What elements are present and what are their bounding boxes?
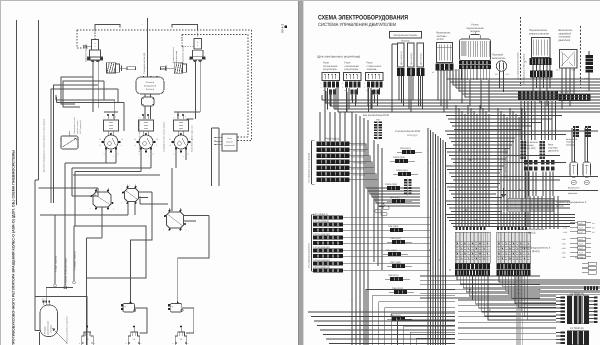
mid horizontal wire 3 <box>75 171 141 173</box>
svg-text:А7С2А (В4)(4)(3): А7С2А (В4)(4)(3) <box>313 233 330 236</box>
svg-text:ДВ12 (М4)(3): ДВ12 (М4)(3) <box>410 53 413 65</box>
svg-text:3: 3 <box>188 153 189 156</box>
svg-text:22: 22 <box>121 138 123 141</box>
svg-text:К передн. тормоза: К передн. тормоза <box>74 251 77 270</box>
svg-text:Модуль: Модуль <box>401 40 410 43</box>
relay valve V2 <box>125 189 139 202</box>
relay connector blocks R3 <box>367 82 370 88</box>
long route rectangle <box>74 226 146 345</box>
left chamber pilot valve <box>92 40 99 51</box>
dashed drop to left valve <box>94 30 96 40</box>
emergency stop box <box>560 50 578 69</box>
svg-text:б: б <box>185 116 186 119</box>
svg-text:3: 3 <box>118 153 119 156</box>
svg-text:К клапану управления (для ЕС): К клапану управления (для ЕС) <box>66 316 69 344</box>
svg-text:(В1(1)): (В1(1)) <box>528 232 536 235</box>
svg-text:А7С3 (В4)(3,1): А7С3 (В4)(3,1) <box>313 213 328 216</box>
big connector X1 pin row <box>455 270 490 276</box>
protection valve circle rear <box>174 135 188 149</box>
big connector X1 dense row <box>455 264 490 270</box>
svg-text:регулятора: регулятора <box>323 68 337 71</box>
svg-text:3: 3 <box>121 202 122 205</box>
svg-text:1: 1 <box>174 153 175 156</box>
group1 fan wires <box>360 144 420 188</box>
short right verticals <box>211 128 213 186</box>
central bundle junctions <box>427 149 429 151</box>
bus corner turns from comb <box>446 69 448 79</box>
svg-text:2 4 1 3: 2 4 1 3 <box>453 69 459 72</box>
right coil symbol <box>174 63 182 74</box>
svg-text:12: 12 <box>134 144 136 147</box>
svg-text:2: 2 <box>183 155 184 158</box>
window top border <box>0 0 600 2</box>
svg-text:(В1(2)): (В1(2)) <box>532 250 540 253</box>
svg-text:ЕС2: ЕС2 <box>572 69 576 72</box>
ASSO switch body <box>437 43 453 63</box>
scattered junction dots mid page <box>459 149 460 150</box>
pressure switch B <box>583 162 591 177</box>
gear lever knob <box>470 35 481 40</box>
relay box R3 <box>366 73 384 81</box>
pressure switch feeds <box>571 128 573 162</box>
valve V2 tails <box>139 191 153 193</box>
main harness connector band B <box>559 95 591 102</box>
svg-text:а: а <box>174 117 175 119</box>
svg-text:А-УП: А-УП <box>579 231 584 234</box>
group2 fan wires <box>352 217 430 219</box>
svg-text:1: 1 <box>104 153 105 156</box>
svg-text:PW03 (В4В)(1): PW03 (В4В)(1) <box>351 168 365 171</box>
svg-text:Жгут проводов (левая сторона): Жгут проводов (левая сторона) <box>523 53 526 84</box>
svg-text:(управляющего: (управляющего <box>47 320 50 335</box>
relay to connector verticals <box>521 196 523 229</box>
relay connector blocks R2 <box>345 82 348 88</box>
svg-text:1: 1 <box>90 191 91 194</box>
rear relay pin strips <box>521 141 523 143</box>
solenoid valve A <box>123 304 135 313</box>
svg-text:3: 3 <box>90 207 91 210</box>
svg-text:12: 12 <box>99 144 101 147</box>
svg-text:2: 2 <box>113 155 114 158</box>
main harness connector band A <box>518 91 558 100</box>
capsule feed wire <box>46 288 73 301</box>
svg-text:Жгут проводов шасси (задний): Жгут проводов шасси (задний) <box>504 148 507 178</box>
protection valve rect rear <box>174 120 189 131</box>
left page background <box>1 1 299 345</box>
svg-text:ТМВ (3)(1): ТМВ (3)(1) <box>388 274 399 277</box>
dashed control line left drop <box>76 30 78 48</box>
left column bottom horizontals <box>308 311 455 313</box>
svg-text:клапан отсечки: клапан отсечки <box>76 121 79 134</box>
mid-right horizontal tap wires <box>446 115 562 117</box>
reversing switch body <box>532 38 551 58</box>
bottom right horizontal bundle <box>458 299 556 301</box>
capsule right frame <box>52 297 88 345</box>
route from V3 <box>178 216 209 303</box>
long wire left pair <box>16 20 18 205</box>
svg-text:Реле: Реле <box>548 144 554 147</box>
svg-text:PW03 (В4)(2): PW03 (В4)(2) <box>353 174 366 177</box>
relay connector row2 R3 <box>373 90 376 95</box>
upper horizontal bus bundle left <box>322 99 600 101</box>
relay connector row2 R1 <box>329 90 332 95</box>
mid horizontal wire 2 <box>72 167 151 169</box>
svg-text:1: 1 <box>342 82 343 85</box>
svg-text:двигателя: двигателя <box>548 150 559 153</box>
svg-text:ТМВ (3)(4): ТМВ (3)(4) <box>390 237 401 240</box>
C3 TEMP A block <box>567 296 589 325</box>
svg-text:А-УП: А-УП <box>579 242 584 245</box>
circle drop wires <box>105 149 107 164</box>
svg-text:С3 ТЕМР (В): С3 ТЕМР (В) <box>570 327 584 330</box>
svg-text:2: 2 <box>148 155 149 158</box>
big connector X1 fan down <box>457 276 600 281</box>
svg-text:ДВ11 (М4)(3,2): ДВ11 (М4)(3,2) <box>400 51 403 65</box>
svg-text:Ресивер: Ресивер <box>44 325 47 334</box>
svg-text:Тормозная камера: Тормозная камера <box>182 45 185 63</box>
svg-text:2: 2 <box>364 86 365 89</box>
page gap shadow <box>299 0 304 345</box>
svg-text:4: 4 <box>129 184 130 187</box>
wire loop symbols <box>378 203 384 207</box>
air tank control capsule <box>40 305 58 337</box>
svg-text:вых: вых <box>42 299 45 301</box>
mid horizontal wire 4 <box>73 174 160 176</box>
svg-text:1: 1 <box>121 188 122 191</box>
svg-text:прицепа: прицепа <box>566 143 575 146</box>
ASSO drop wires <box>437 71 439 101</box>
svg-text:21: 21 <box>99 138 101 141</box>
svg-text:PW3 (3)(1): PW3 (3)(1) <box>400 147 411 150</box>
svg-text:ЕС1: ЕС1 <box>556 69 560 72</box>
mid horizontal wire 1 <box>65 162 116 164</box>
svg-text:2: 2 <box>342 86 343 89</box>
svg-text:контура): контура) <box>50 325 53 333</box>
big connector X2 top tick rows <box>497 227 499 230</box>
relay box R2 <box>344 73 362 81</box>
mid-right tap junction dots <box>452 130 453 131</box>
svg-text:Стандартный тип (Е): Стандартный тип (Е) <box>143 53 146 74</box>
svg-text:А-УП: А-УП <box>579 226 584 229</box>
central vertical bundle <box>427 128 429 345</box>
manifold cross wires <box>104 111 118 113</box>
wire label K peredn tormoza <box>73 226 75 281</box>
svg-text:А-УП: А-УП <box>579 222 584 225</box>
svg-text:пв: пв <box>171 306 173 308</box>
wire label K kamere <box>64 188 66 286</box>
svg-text:2: 2 <box>113 208 114 211</box>
C3 TEMP B block <box>567 331 589 345</box>
svg-text:С контроллером РСМ: С контроллером РСМ <box>395 130 420 133</box>
valve cluster links <box>65 187 98 189</box>
wire label K zadn tormoza <box>54 215 56 284</box>
grey note box <box>508 199 554 212</box>
big connector X2 fan down <box>499 276 600 283</box>
relay valve V3 <box>167 212 184 228</box>
pressure switch A <box>570 162 578 177</box>
left coil symbol <box>107 63 116 73</box>
big connector X1 top tick rows <box>456 227 458 230</box>
right brake chamber body <box>193 50 204 56</box>
left brake chamber body <box>90 50 101 57</box>
harness dashed separator right <box>580 26 582 88</box>
relay connector blocks R1 <box>324 82 327 88</box>
grey fan strip <box>516 276 518 345</box>
control panel title box <box>390 32 422 39</box>
right chamber base <box>190 57 205 60</box>
svg-text:21: 21 <box>169 138 171 141</box>
relay box R1 <box>322 73 340 81</box>
svg-text:12: 12 <box>169 144 171 147</box>
big connector X2 pin row <box>497 270 531 276</box>
svg-text:3: 3 <box>163 228 164 231</box>
reversing switch connector <box>530 58 552 65</box>
svg-text:Электромагнитный: Электромагнитный <box>73 117 76 134</box>
svg-text:Крепление оборудования пневмат: Крепление оборудования пневматической си… <box>43 118 46 172</box>
svg-text:С3 ТЕМР (А): С3 ТЕМР (А) <box>570 292 584 295</box>
tank feed top wire <box>147 18 149 77</box>
svg-text:(В1(1)): (В1(1)) <box>556 205 564 208</box>
group2 bracket <box>311 215 313 272</box>
svg-text:3: 3 <box>153 153 154 156</box>
svg-text:ТМС (3)(7): ТМС (3)(7) <box>386 249 397 252</box>
mid wire to valve3 <box>171 168 173 211</box>
air receiver tank <box>136 77 164 94</box>
left nested feed wires <box>61 77 93 104</box>
C3 TEMP A left terminals <box>561 297 566 299</box>
svg-text:PW03 (3)(4): PW03 (3)(4) <box>393 156 405 159</box>
relay group drop wires <box>525 172 527 197</box>
dashed corner into right valve <box>181 35 183 47</box>
svg-text:90-4-3: 90-4-3 <box>281 24 285 33</box>
right fuse stack 1 <box>578 221 586 225</box>
relay pin wires R1 <box>324 88 326 112</box>
svg-text:давления: давления <box>568 192 577 195</box>
rear relay blocks <box>524 160 527 165</box>
svg-text:А7С10 (В4)(1)(2): А7С10 (В4)(1)(2) <box>313 266 330 269</box>
solenoid pilot valve <box>61 136 78 149</box>
svg-text:PW03 (3)(0): PW03 (3)(0) <box>385 183 397 186</box>
group1 connector rows <box>317 142 350 147</box>
svg-text:реверса-питания: реверса-питания <box>529 32 549 35</box>
right page background <box>303 1 600 345</box>
svg-text:А7С4А (В4)(4)(1): А7С4А (В4)(4)(1) <box>313 246 330 249</box>
protection valve circle front <box>104 135 118 149</box>
dashed control line top run <box>77 29 252 31</box>
svg-text:Жгут проводов включателей: Жгут проводов включателей <box>517 52 520 80</box>
capsule bottom stub <box>39 332 41 345</box>
svg-text:ТМС (3)(0): ТМС (3)(0) <box>390 261 401 264</box>
top bracket left <box>95 25 120 31</box>
route from V2 tail <box>131 192 153 302</box>
svg-text:А1: А1 <box>432 71 434 74</box>
control panel connector row 1 <box>397 68 405 76</box>
svg-text:А7С4А (В4А)(3): А7С4А (В4А)(3) <box>313 220 329 223</box>
dashed control line second run <box>182 34 248 36</box>
svg-text:PW3 (3)(1): PW3 (3)(1) <box>407 134 418 137</box>
svg-text:(давление): (давление) <box>224 144 235 147</box>
svg-text:расцепления: расцепления <box>175 51 178 63</box>
valve V3 tails <box>184 215 210 217</box>
svg-text:двигателя: двигателя <box>559 39 571 42</box>
right chamber pilot valve <box>194 39 202 50</box>
svg-text:21: 21 <box>134 138 136 141</box>
svg-text:Включатель: Включатель <box>568 187 580 190</box>
solenoid valve A drop <box>135 308 148 333</box>
svg-text:а: а <box>104 117 105 119</box>
C3 TEMP B left terminals <box>561 332 566 334</box>
right fuse stack 2 <box>578 237 586 241</box>
valve V1 drop <box>101 207 103 238</box>
far right pin strip <box>586 55 594 58</box>
svg-text:2: 2 <box>321 86 322 89</box>
solenoid valve B <box>170 304 182 313</box>
svg-text:К задн. тормоза: К задн. тормоза <box>55 255 58 272</box>
svg-text:б: б <box>150 116 151 119</box>
band to relay verticals <box>520 101 522 140</box>
svg-text:1: 1 <box>364 82 365 85</box>
svg-text:Реле включе-: Реле включе- <box>524 141 539 144</box>
secondary vertical bundle B <box>497 108 499 227</box>
top right pin strips <box>573 126 576 128</box>
C3 TEMP top mini strip <box>584 287 586 291</box>
svg-text:передач: передач <box>470 30 481 33</box>
control panel strip 2 <box>408 43 415 67</box>
control panel drop wires <box>398 76 400 100</box>
svg-text:А7С5А (В4)(5)(2): А7С5А (В4)(5)(2) <box>313 259 330 262</box>
svg-text:Тормозная камера задн. оси: Тормозная камера задн. оси <box>191 126 194 152</box>
svg-text:ПРОТИВОБУКСОВОЧНОГО РЕГУЛЯТОРА: ПРОТИВОБУКСОВОЧНОГО РЕГУЛЯТОРА ВРАЩЕНИЯ … <box>12 150 16 345</box>
protection valve rect middle <box>139 120 154 131</box>
nested routing loops <box>366 290 455 345</box>
relay valve V1 <box>93 192 111 207</box>
right chamber legs <box>195 60 197 119</box>
left column mid verticals <box>373 140 375 262</box>
svg-text:ДВ13 (М4)(1): ДВ13 (М4)(1) <box>420 53 423 65</box>
svg-text:З: З <box>197 44 198 47</box>
bus junction dots <box>325 102 327 104</box>
relay pin wires R3 <box>368 88 370 112</box>
top bracket right <box>172 25 198 31</box>
far right mid cells <box>588 262 596 265</box>
svg-text:PW03 (3)(1): PW03 (3)(1) <box>396 169 408 172</box>
svg-text:тормоза: тормоза <box>566 141 575 144</box>
svg-text:З: З <box>94 45 95 48</box>
svg-text:б: б <box>115 116 116 119</box>
svg-text:К камере пневмоцилиндра: К камере пневмоцилиндра <box>65 257 68 285</box>
svg-text:тормоза: тормоза <box>367 68 377 71</box>
wire bottom-left joins <box>35 330 40 332</box>
link to left pair <box>39 187 66 189</box>
capsule pointer arrow <box>53 329 68 344</box>
overflow protection box <box>222 134 237 151</box>
solenoid valve B drop <box>182 308 194 333</box>
svg-text:СИСТЕМА УПРАВЛЕНИЯ ДВИГАТЕЛЕМ: СИСТЕМА УПРАВЛЕНИЯ ДВИГАТЕЛЕМ <box>318 22 396 27</box>
gear lever connector rows <box>459 61 491 65</box>
control panel strip 3 <box>417 43 424 67</box>
left chamber base <box>88 57 103 60</box>
grid pass-through wires <box>497 232 499 263</box>
svg-text:1: 1 <box>321 82 322 85</box>
control panel strip 1 <box>398 43 405 67</box>
svg-text:А-УП: А-УП <box>579 251 584 254</box>
svg-text:А-УП: А-УП <box>579 238 584 241</box>
left manifold horizontals <box>56 99 115 101</box>
svg-text:Включатель: Включатель <box>566 138 578 141</box>
upper horizontal bus bundle right half <box>447 78 600 80</box>
svg-text:РСМ (задн.): РСМ (задн.) <box>575 257 586 260</box>
secondary vertical bundle A <box>455 105 457 227</box>
left chamber legs <box>92 60 94 112</box>
dashed drop to right valve <box>197 30 199 39</box>
control panel connector row 2 <box>407 68 415 76</box>
window left border <box>0 0 2 345</box>
control panel left rail <box>391 44 393 112</box>
svg-text:PW03 (М1(2)): PW03 (М1(2)) <box>325 138 340 141</box>
overflow box left pins <box>215 137 222 139</box>
relay pin wires R2 <box>346 88 348 112</box>
bus to group1 verticals <box>319 112 321 141</box>
tank outlet valve <box>142 97 155 106</box>
gear lever comb body <box>460 39 491 61</box>
relay connector row2 R2 <box>351 90 354 95</box>
bottom mid horizontal bundle <box>420 275 540 277</box>
left bus left-edge corner turns <box>321 95 323 100</box>
svg-text:Жгут проводов двигателя: Жгут проводов двигателя <box>308 243 311 268</box>
svg-text:(Для электронного регулятора): (Для электронного регулятора) <box>317 55 360 59</box>
left column long verticals <box>351 112 353 345</box>
svg-text:Соединительная головка запасн.: Соединительная головка запасн. <box>163 121 166 152</box>
starter relay blocks <box>541 160 544 165</box>
ignition pins <box>499 71 501 88</box>
svg-text:22: 22 <box>156 138 158 141</box>
svg-text:Клапан быстрого: Клапан быстрого <box>172 46 175 63</box>
svg-text:Клапан защиты от переполнения: Клапан защиты от переполнения <box>138 121 141 152</box>
bus vertical taps <box>321 95 323 100</box>
emergency stop drop wires <box>561 68 563 95</box>
svg-text:АСР (передний): АСР (передний) <box>79 120 82 134</box>
svg-text:СХЕМА ЭЛЕКТРООБОРУДОВАНИЯ: СХЕМА ЭЛЕКТРООБОРУДОВАНИЯ <box>318 14 408 21</box>
control panel connector row 3 <box>417 68 425 76</box>
capsule top ports <box>43 301 45 303</box>
bottom valve assembly front <box>82 332 93 345</box>
big connector X1 grid <box>455 232 490 263</box>
group1 bracket <box>311 141 313 185</box>
svg-text:Жгут проводов шасси (правый): Жгут проводов шасси (правый) <box>308 153 311 183</box>
svg-text:PW03 (В4А)(2): PW03 (В4А)(2) <box>351 156 365 159</box>
svg-text:стартера: стартера <box>548 147 558 150</box>
svg-text:А-УП: А-УП <box>579 247 584 250</box>
svg-text:Контрольная панель: Контрольная панель <box>394 34 419 37</box>
harness dashed separator left <box>520 17 522 86</box>
gear lever drop wires <box>461 69 463 80</box>
svg-text:защиты: защиты <box>226 141 234 144</box>
big connector X2 dense row <box>497 264 531 270</box>
svg-text:Тормозная камера: Тормозная камера <box>85 43 88 62</box>
svg-text:(воздушный: (воздушный <box>144 85 157 88</box>
svg-text:пв: пв <box>124 306 126 308</box>
tank to manifold wires <box>144 106 146 119</box>
svg-text:1: 1 <box>163 211 164 214</box>
svg-text:а: а <box>139 117 140 119</box>
ASSO connector row <box>436 64 454 71</box>
svg-text:Ресивер: Ресивер <box>146 81 155 84</box>
svg-text:Без контроллера РСМ: Без контроллера РСМ <box>363 114 389 117</box>
bottom valve assembly rear <box>175 332 186 345</box>
bottom valve assembly middle <box>128 332 139 345</box>
svg-text:регулятора: регулятора <box>345 68 359 71</box>
svg-text:баллон): баллон) <box>146 88 154 91</box>
